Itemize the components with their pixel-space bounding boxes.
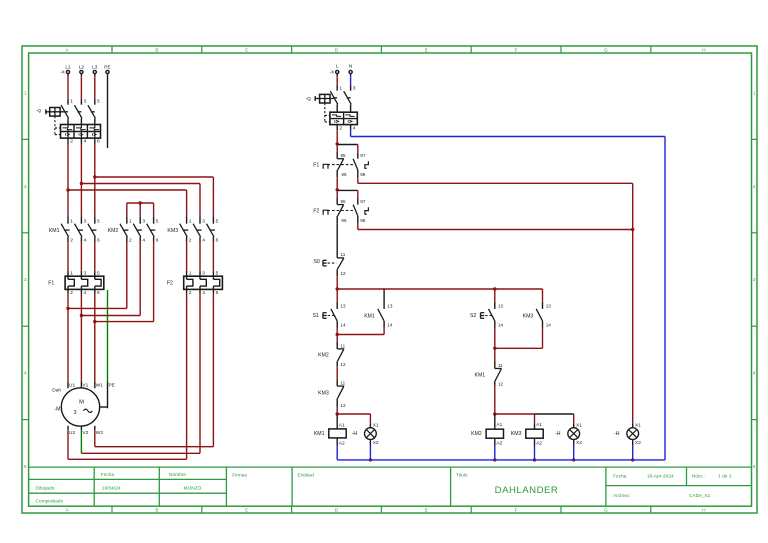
wire KM3 12 to coil node [336, 407, 339, 415]
wire L breaker output to F1 95 [336, 130, 339, 145]
wire S1 to node below [336, 328, 339, 336]
wire KM1 12 to coil node [493, 386, 496, 416]
svg-text:14: 14 [340, 323, 346, 328]
wire node to pilot lamp H1 [337, 414, 370, 424]
svg-text:CADe_S1: CADe_S1 [689, 493, 711, 499]
wire overload trip line to lamp H4 [632, 230, 634, 424]
svg-text:A2: A2 [339, 440, 345, 446]
wire N breaker output, blue rail right and down [351, 130, 665, 460]
wire motor V2 to F2 pole2 (green riser) [81, 294, 200, 453]
contactor KM2 main contacts [108, 216, 159, 243]
svg-text:12: 12 [340, 403, 346, 408]
wire L3 from terminal to breaker [94, 74, 96, 99]
svg-text:1: 1 [70, 271, 73, 277]
svg-text:Fecha: Fecha [613, 474, 627, 480]
wire F1 pole1 to motor U1 with junction to KM2 [66, 242, 127, 381]
svg-text:A1: A1 [536, 422, 542, 428]
svg-text:1: 1 [70, 99, 73, 105]
start pushbutton S2 (NO) [470, 302, 504, 328]
svg-text:1: 1 [129, 219, 132, 225]
svg-text:3: 3 [84, 99, 87, 105]
svg-text:12: 12 [340, 362, 346, 367]
pilot lamp -H (high speed) [555, 422, 582, 461]
svg-text:3: 3 [24, 277, 27, 282]
svg-text:Núm.:: Núm.: [692, 474, 705, 480]
svg-text:X2: X2 [576, 440, 582, 446]
svg-text:14: 14 [498, 323, 504, 328]
svg-text:-Q: -Q [306, 96, 312, 102]
auxiliary contact KM1 13-14 (seal-in) [364, 289, 393, 328]
svg-text:5: 5 [216, 219, 219, 225]
svg-text:Firmas: Firmas [232, 473, 247, 479]
svg-text:S0: S0 [313, 259, 319, 265]
overload F2 auxiliary contacts 95-96 / 97-98 [313, 190, 368, 223]
svg-text:6: 6 [216, 237, 219, 243]
svg-text:13: 13 [340, 303, 346, 308]
svg-text:L1: L1 [65, 65, 71, 71]
svg-text:5: 5 [216, 271, 219, 277]
svg-text:A1: A1 [496, 422, 502, 428]
svg-text:2: 2 [70, 237, 73, 243]
svg-text:3: 3 [142, 219, 145, 225]
svg-text:4: 4 [84, 290, 87, 296]
svg-text:11: 11 [340, 344, 345, 349]
svg-text:KM2: KM2 [108, 228, 119, 234]
overload relay F2 [167, 271, 223, 297]
motor M (Dahlander) [52, 381, 115, 436]
svg-text:U2: U2 [69, 430, 75, 436]
svg-text:97: 97 [360, 199, 366, 204]
svg-text:3: 3 [84, 219, 87, 225]
svg-text:3: 3 [202, 271, 205, 277]
svg-text:1 de 1: 1 de 1 [718, 474, 732, 480]
svg-text:2: 2 [70, 139, 73, 145]
svg-text:3: 3 [74, 410, 77, 416]
svg-text:2: 2 [189, 237, 192, 243]
wire N terminal to breaker [350, 74, 352, 85]
svg-text:5: 5 [97, 99, 100, 105]
contactor KM3 main contacts [167, 216, 218, 243]
terminal L1 of -X [65, 65, 71, 74]
wire F1 96 to F2 95 [336, 177, 339, 191]
svg-text:-X: -X [329, 70, 335, 76]
title block texts [36, 472, 732, 504]
svg-text:5: 5 [97, 219, 100, 225]
svg-text:1: 1 [24, 90, 27, 95]
svg-text:6: 6 [97, 139, 100, 145]
svg-text:H: H [702, 47, 705, 52]
svg-text:Dibujado: Dibujado [36, 485, 55, 491]
svg-text:95: 95 [341, 199, 347, 204]
svg-text:X1: X1 [373, 422, 379, 428]
wire PE green segment to motor [100, 290, 108, 408]
wire F2 96 to stop button S0 [336, 223, 338, 251]
svg-text:1: 1 [70, 219, 73, 225]
svg-text:F1: F1 [313, 162, 319, 168]
svg-text:KM1: KM1 [364, 314, 375, 320]
svg-text:95: 95 [341, 153, 347, 158]
svg-text:2: 2 [24, 184, 27, 189]
svg-text:11: 11 [341, 252, 346, 257]
svg-text:2: 2 [70, 290, 73, 296]
svg-text:12: 12 [498, 382, 504, 387]
svg-text:KM3: KM3 [167, 228, 178, 234]
title block grid [29, 467, 752, 506]
terminal L3 of -X [92, 65, 98, 74]
wire rail to S1 [336, 289, 338, 302]
svg-text:KM3: KM3 [511, 431, 522, 437]
svg-text:3: 3 [353, 86, 356, 92]
svg-text:W2: W2 [96, 430, 104, 436]
svg-text:16/04/24: 16/04/24 [102, 485, 121, 491]
svg-text:12: 12 [341, 271, 347, 276]
svg-text:4: 4 [202, 290, 205, 296]
svg-text:KM1: KM1 [314, 431, 325, 437]
svg-text:4: 4 [753, 371, 756, 376]
svg-text:3: 3 [202, 219, 205, 225]
svg-text:F: F [515, 508, 518, 513]
wire L1 breaker to KM1 pole 1 with junction to KM3 [66, 144, 186, 217]
wire KM2 12 to KM3 11 [336, 366, 338, 379]
svg-text:E: E [425, 47, 428, 52]
svg-text:4: 4 [353, 125, 356, 131]
svg-text:S2: S2 [470, 313, 476, 319]
svg-text:-Q: -Q [36, 108, 42, 114]
svg-text:L: L [336, 63, 339, 69]
svg-text:1: 1 [189, 271, 192, 277]
svg-text:B: B [155, 47, 158, 52]
wire KM3 14 down and left to node [495, 328, 543, 348]
svg-text:S1: S1 [312, 313, 318, 319]
svg-text:4: 4 [84, 139, 87, 145]
coil KM3 [511, 422, 543, 462]
svg-text:3: 3 [84, 271, 87, 277]
wire F1 97-98 output to pilot lamp column [358, 177, 633, 229]
svg-text:98: 98 [360, 172, 366, 177]
terminal N of control -X [349, 63, 353, 73]
svg-text:W1: W1 [96, 382, 104, 388]
svg-text:A2: A2 [536, 441, 542, 447]
svg-text:16-Apr-2024: 16-Apr-2024 [647, 474, 674, 480]
svg-text:-M: -M [54, 406, 60, 412]
svg-text:13: 13 [546, 303, 552, 308]
stop pushbutton S0 (NC) [313, 251, 346, 276]
svg-text:L3: L3 [92, 65, 98, 71]
start pushbutton S1 (NO) [312, 302, 346, 328]
interlock contact KM3 11-12 (NC) [318, 379, 346, 408]
svg-text:E: E [425, 508, 428, 513]
wire node to KM3 coil and lamp H3 [495, 414, 574, 424]
svg-text:M: M [79, 399, 84, 405]
wire KM3 outputs to F2 [187, 242, 214, 271]
svg-text:Dah: Dah [52, 388, 61, 394]
svg-text:4: 4 [202, 237, 205, 243]
svg-text:4: 4 [84, 237, 87, 243]
svg-text:KM2: KM2 [318, 352, 329, 358]
svg-text:PE: PE [104, 65, 110, 71]
wire L terminal to breaker [336, 74, 338, 85]
wire F1 pole2 to motor V1 with junction to KM2 [80, 242, 140, 381]
pilot lamp -H (fault) [614, 422, 641, 461]
svg-text:6: 6 [97, 237, 100, 243]
interlock contact KM1 11-12 (NC) [475, 348, 504, 386]
svg-text:5: 5 [753, 464, 756, 469]
wire motor U2 to F2 pole1 [68, 294, 187, 459]
wire rail to S2 [494, 289, 496, 302]
terminal PE of -X [104, 65, 110, 74]
svg-text:L2: L2 [79, 65, 85, 71]
svg-text:13: 13 [387, 303, 393, 308]
overload relay F1 [48, 271, 104, 297]
control rail node [337, 287, 542, 290]
coil KM1 [314, 414, 346, 460]
svg-text:KM1: KM1 [475, 372, 486, 378]
svg-text:96: 96 [341, 218, 347, 223]
svg-text:4: 4 [24, 371, 27, 376]
svg-text:Comprobado: Comprobado [36, 499, 64, 505]
border frame inner [29, 53, 752, 506]
svg-text:11: 11 [498, 363, 503, 368]
svg-text:X2: X2 [635, 440, 641, 446]
svg-text:98: 98 [360, 218, 366, 223]
blue neutral bottom rail [337, 459, 665, 461]
svg-text:2: 2 [339, 125, 342, 131]
svg-text:6: 6 [156, 237, 159, 243]
terminal L2 of -X [79, 65, 85, 74]
svg-text:F2: F2 [313, 208, 319, 214]
wire KM1 outputs to F1 [68, 242, 95, 271]
svg-text:DAHLANDER: DAHLANDER [495, 485, 559, 496]
svg-text:2: 2 [129, 237, 132, 243]
wire L2 from terminal to breaker [80, 74, 82, 99]
svg-text:X1: X1 [635, 422, 641, 428]
wire F2 97-98 output joining lamp column [358, 223, 635, 231]
wire PE conductor (upper black segment) [107, 74, 109, 149]
auxiliary contact KM3 13-14 (seal-in) [523, 289, 552, 328]
svg-text:1: 1 [753, 90, 756, 95]
svg-text:5: 5 [24, 464, 27, 469]
svg-text:4: 4 [142, 237, 145, 243]
svg-text:N: N [349, 63, 353, 69]
svg-text:F1: F1 [48, 280, 54, 286]
svg-text:2: 2 [189, 290, 192, 296]
svg-text:KM2: KM2 [471, 431, 482, 437]
svg-text:96: 96 [341, 172, 347, 177]
svg-text:PE: PE [109, 382, 115, 388]
wire S0 to control rail [336, 276, 339, 290]
pilot lamp -H (KM1 running) [352, 422, 379, 461]
svg-text:13: 13 [498, 303, 504, 308]
svg-text:Fecha: Fecha [101, 472, 115, 478]
svg-text:6: 6 [97, 290, 100, 296]
svg-text:X2: X2 [373, 440, 379, 446]
svg-text:6: 6 [216, 290, 219, 296]
svg-text:-X: -X [60, 70, 66, 76]
coil KM2 [471, 414, 503, 462]
wire KM2 star bridge [127, 201, 154, 216]
svg-text:U1: U1 [69, 382, 75, 388]
svg-text:1: 1 [339, 86, 342, 92]
terminal L of control -X [336, 63, 339, 73]
svg-text:97: 97 [360, 153, 366, 158]
svg-text:3: 3 [753, 277, 756, 282]
circuit breaker Q (3-pole motor protector) [36, 99, 101, 145]
svg-text:MONZO: MONZO [184, 485, 202, 491]
overload F1 auxiliary contacts 95-96 / 97-98 [313, 144, 368, 177]
svg-text:F2: F2 [167, 280, 173, 286]
wire L2 breaker to KM1 pole 2 with junction to KM3 [80, 144, 200, 217]
svg-text:Titulo: Titulo [456, 472, 468, 478]
svg-text:X1: X1 [576, 422, 582, 428]
svg-text:A2: A2 [496, 441, 502, 447]
svg-text:A1: A1 [339, 423, 345, 429]
svg-text:KM3: KM3 [318, 391, 329, 397]
wire L3 breaker to KM1 pole 3 with junction to KM3 [93, 144, 213, 217]
svg-text:Entidad: Entidad [298, 473, 315, 479]
svg-text:14: 14 [546, 323, 552, 328]
svg-text:Archivo:: Archivo: [613, 493, 630, 499]
svg-text:5: 5 [156, 219, 159, 225]
svg-text:14: 14 [387, 323, 393, 328]
svg-text:KM3: KM3 [523, 314, 534, 320]
svg-text:11: 11 [340, 381, 345, 386]
svg-text:V2: V2 [82, 430, 88, 436]
svg-text:H: H [702, 508, 705, 513]
svg-text:B: B [155, 508, 158, 513]
svg-text:G: G [604, 508, 608, 513]
svg-text:-H: -H [352, 431, 358, 437]
circuit breaker Q (2-pole control) [306, 85, 358, 132]
svg-text:2: 2 [753, 184, 756, 189]
svg-text:G: G [604, 47, 608, 52]
wire F1 pole3 to motor W1 with junction to KM2 [93, 242, 154, 381]
interlock contact KM2 11-12 (NC) [318, 335, 346, 367]
svg-text:1: 1 [189, 219, 192, 225]
svg-text:KM1: KM1 [49, 228, 60, 234]
wire KM1 14 down and left to node [337, 328, 384, 335]
contactor KM1 main contacts [49, 216, 100, 243]
svg-text:5: 5 [97, 271, 100, 277]
wire S2 to node [493, 328, 496, 350]
wire L1 from terminal to breaker [67, 74, 69, 99]
svg-text:-H: -H [614, 431, 620, 437]
wire motor W2 to F2 pole3 [95, 294, 214, 447]
svg-text:-H: -H [555, 431, 561, 437]
svg-text:F: F [515, 47, 518, 52]
svg-text:Nombre: Nombre [169, 472, 186, 478]
